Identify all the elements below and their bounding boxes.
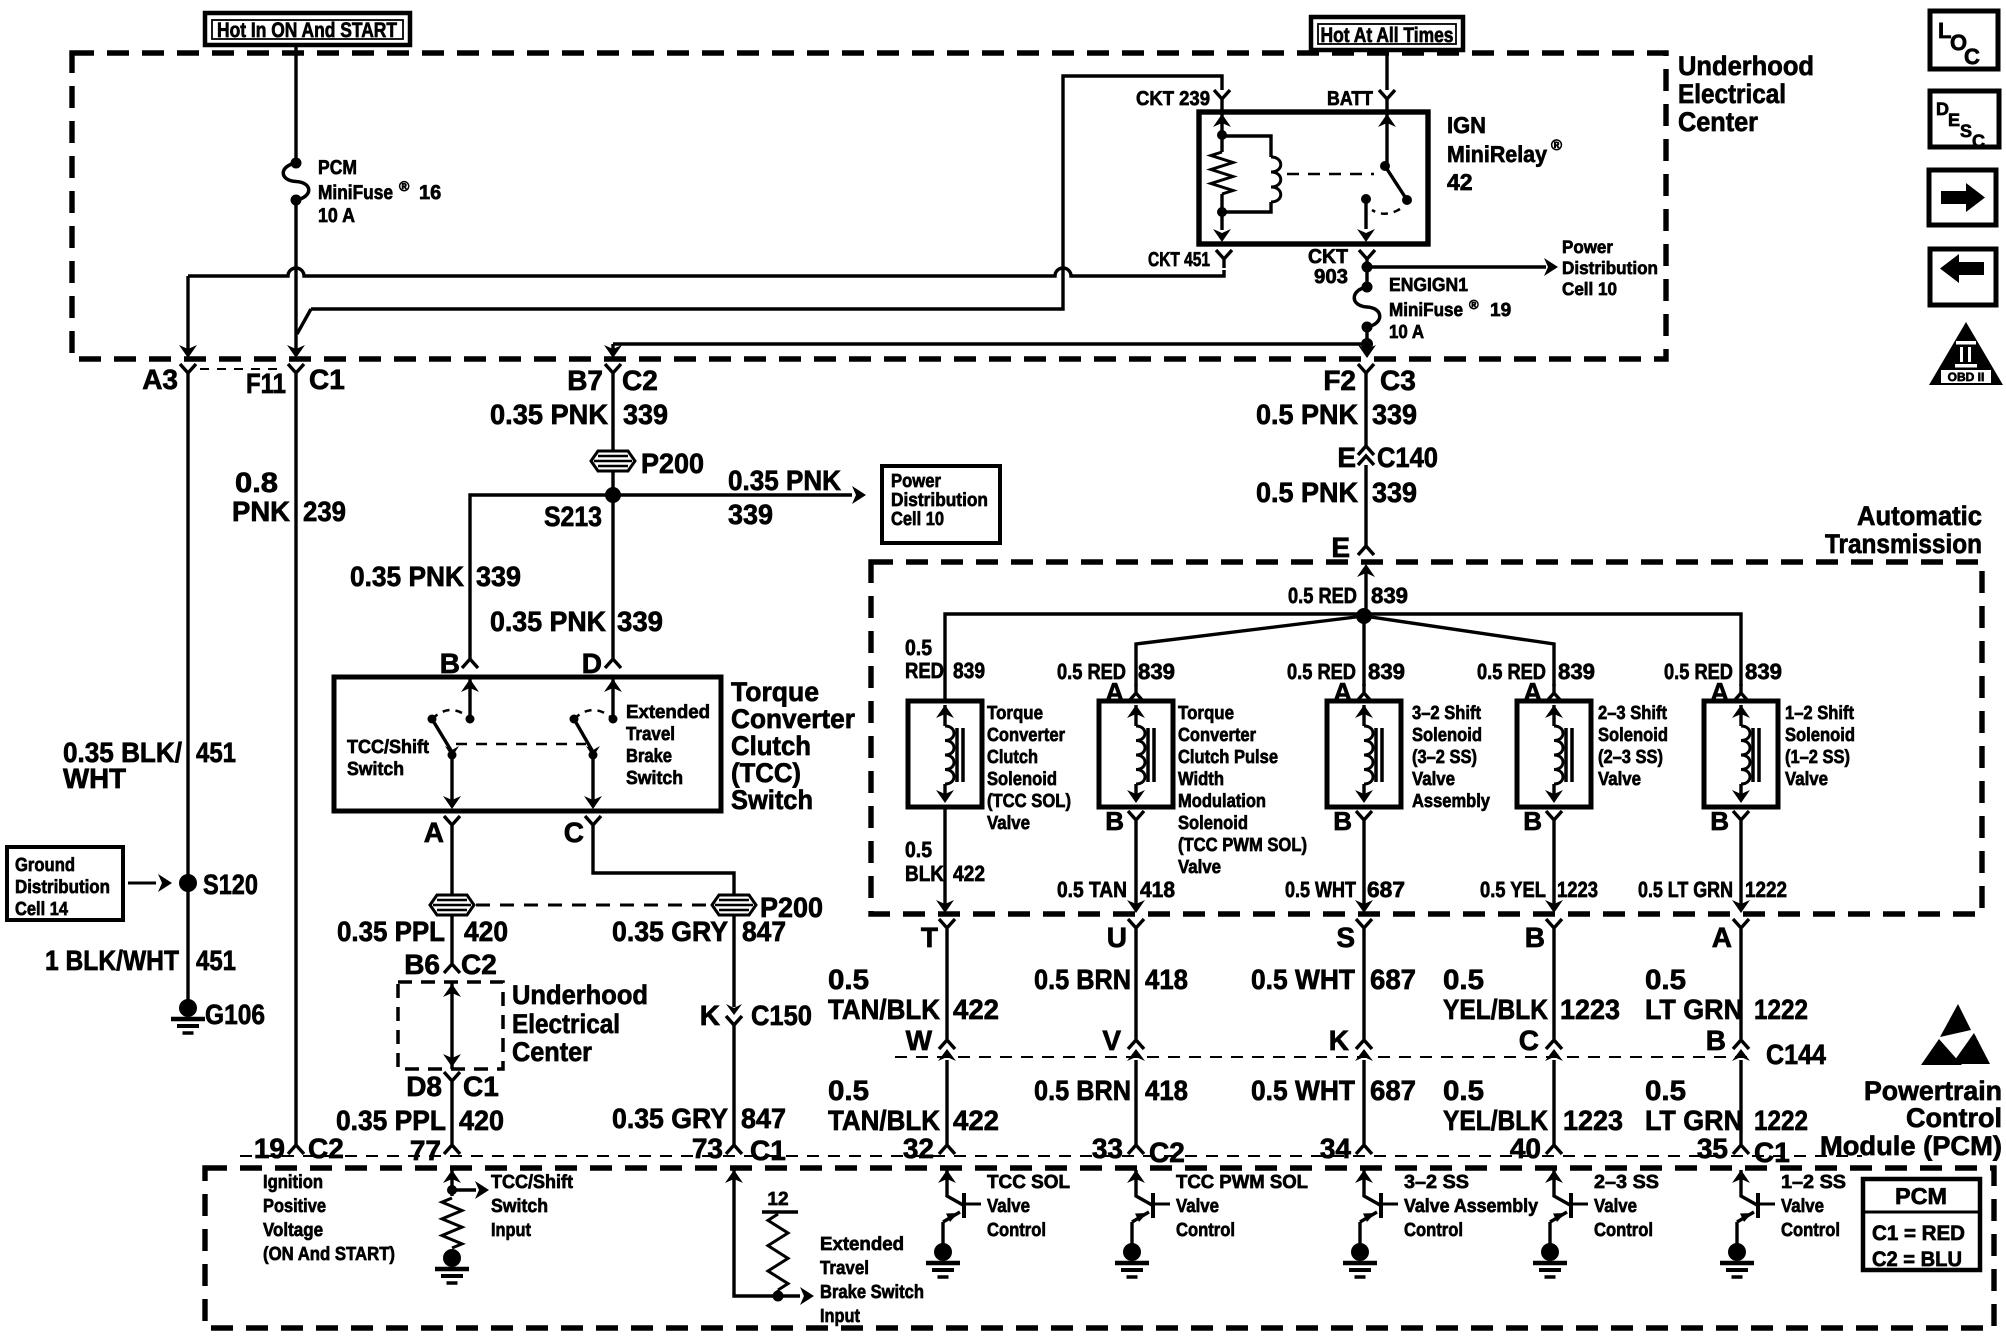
connector pin B of solenoid at x=1741 — [1733, 811, 1749, 829]
svg-text:Valve: Valve — [1178, 857, 1221, 878]
svg-text:Module (PCM): Module (PCM) — [1820, 1131, 2002, 1161]
underhood electrical center pass-through (dashed box) — [398, 982, 503, 1069]
solenoid coil box at x=1364 — [1327, 701, 1401, 807]
svg-text:Converter: Converter — [731, 704, 855, 734]
TCC/shift switch input circuit in PCM — [443, 1170, 461, 1183]
solenoid coil box at x=945 — [908, 701, 982, 807]
svg-text:Switch: Switch — [731, 785, 813, 815]
connector F2 C3 — [1358, 364, 1374, 382]
connector pin 40 of PCM — [1546, 1136, 1562, 1154]
splice S120 — [179, 874, 197, 892]
wire Hot In ON And START to fuse 16 — [294, 45, 297, 163]
svg-text:Transmission: Transmission — [1825, 529, 1982, 559]
PCM connector color legend box — [1863, 1179, 1980, 1270]
svg-text:687: 687 — [1367, 877, 1405, 902]
svg-text:Extended: Extended — [626, 702, 710, 723]
svg-text:0.5: 0.5 — [1645, 964, 1686, 995]
svg-text:10 A: 10 A — [318, 205, 355, 227]
svg-text:B: B — [1333, 806, 1352, 836]
connector pin W at C144 — [939, 1040, 955, 1049]
svg-text:Brake Switch: Brake Switch — [820, 1282, 924, 1303]
svg-text:Hot At All Times: Hot At All Times — [1321, 24, 1454, 47]
svg-text:Electrical: Electrical — [512, 1009, 620, 1039]
connector B7 C2 — [605, 364, 621, 382]
automatic transmission enclosure (dashed) — [871, 562, 1982, 914]
thin dashed connector plane A3-F11 — [200, 368, 284, 370]
svg-text:2–3 Shift: 2–3 Shift — [1598, 703, 1668, 724]
splice S213 — [605, 487, 621, 503]
svg-text:ENGIGN1: ENGIGN1 — [1389, 275, 1468, 296]
connector pin C at C144 — [1546, 1040, 1562, 1049]
svg-text:1–2 Shift: 1–2 Shift — [1785, 703, 1855, 724]
svg-text:Switch: Switch — [626, 768, 683, 789]
svg-text:Torque: Torque — [987, 703, 1043, 724]
svg-text:Valve: Valve — [1412, 769, 1455, 790]
dashed bulkhead line between P200 grommets — [476, 904, 710, 907]
svg-text:Valve: Valve — [1598, 769, 1641, 790]
wire S213 left branch to TCC switch pin B (0.35 PNK 339) — [470, 495, 613, 650]
svg-text:0.5: 0.5 — [1645, 1075, 1686, 1106]
connector pin B at C144 — [1733, 1040, 1749, 1049]
svg-text:839: 839 — [1138, 659, 1175, 684]
svg-text:35: 35 — [1697, 1133, 1728, 1164]
svg-text:418: 418 — [1145, 964, 1188, 995]
connector pin 77 of PCM — [444, 1136, 460, 1154]
svg-text:TCC/Shift: TCC/Shift — [347, 737, 430, 758]
svg-text:B: B — [1525, 922, 1545, 953]
svg-text:451: 451 — [196, 945, 236, 976]
svg-text:Ground: Ground — [15, 855, 75, 876]
wire F11 to PCM pin 19 (0.8 PNK 239) — [294, 382, 297, 1136]
relay switch — [1378, 114, 1396, 127]
svg-text:2–3 SS: 2–3 SS — [1594, 1172, 1659, 1193]
svg-text:S120: S120 — [203, 869, 258, 900]
svg-text:Input: Input — [491, 1220, 532, 1241]
svg-text:F2: F2 — [1323, 365, 1356, 396]
relay coil — [1222, 136, 1271, 157]
svg-text:Assembly: Assembly — [1412, 791, 1490, 812]
svg-text:73: 73 — [692, 1133, 723, 1164]
driver transistor for pin 40 — [1545, 1170, 1563, 1183]
svg-text:C2: C2 — [622, 365, 658, 396]
svg-text:B: B — [1710, 806, 1729, 836]
svg-text:MiniFuse: MiniFuse — [1389, 300, 1463, 321]
connector pin 33 of PCM — [1128, 1136, 1144, 1154]
svg-text:Control: Control — [1781, 1220, 1840, 1241]
wire C140 to transmission case connector E (0.5 PNK 339) — [1364, 465, 1367, 546]
svg-text:Valve: Valve — [1785, 769, 1828, 790]
svg-text:F11: F11 — [246, 368, 286, 399]
driver transistor for pin 32 — [938, 1170, 956, 1183]
svg-text:(TCC SOL): (TCC SOL) — [987, 791, 1071, 812]
svg-text:0.35 PPL: 0.35 PPL — [337, 916, 445, 947]
svg-text:C: C — [1964, 44, 1980, 69]
ground for driver 33 — [1123, 1243, 1141, 1261]
svg-text:®: ® — [399, 178, 410, 194]
svg-text:Valve Assembly: Valve Assembly — [1404, 1196, 1538, 1217]
svg-text:0.35 PNK: 0.35 PNK — [490, 399, 608, 430]
ground G106 — [179, 999, 197, 1017]
TCC switch output wires to A and C — [450, 755, 453, 807]
connector D8 C1 underhood electrical center — [444, 1072, 460, 1090]
svg-text:0.35 PPL: 0.35 PPL — [336, 1105, 446, 1136]
connector pin A of solenoid at x=1554 — [1546, 684, 1562, 702]
svg-text:Cell 10: Cell 10 — [1562, 279, 1617, 299]
svg-text:Valve: Valve — [1781, 1196, 1824, 1217]
svg-text:YEL/BLK: YEL/BLK — [1443, 1105, 1548, 1136]
svg-text:®: ® — [1469, 297, 1479, 312]
svg-text:Cell 10: Cell 10 — [891, 509, 944, 530]
svg-text:422: 422 — [953, 861, 985, 886]
svg-text:Solenoid: Solenoid — [987, 769, 1057, 790]
wire fuse16 branch to relay coil CKT 239 (net 239) — [311, 76, 1222, 309]
pass-through grommet P200 (TCC/shift signal) — [430, 895, 474, 915]
svg-text:A3: A3 — [142, 364, 178, 395]
svg-text:Cell 14: Cell 14 — [15, 899, 68, 920]
svg-text:B6: B6 — [404, 949, 440, 980]
connector pin A of TCC switch — [444, 816, 460, 834]
svg-text:LT GRN: LT GRN — [1645, 1105, 1743, 1136]
svg-text:0.5: 0.5 — [1443, 1075, 1484, 1106]
svg-text:420: 420 — [464, 916, 508, 947]
connector A3 of PCM harness — [180, 364, 196, 382]
svg-text:Input: Input — [820, 1306, 861, 1327]
svg-text:Voltage: Voltage — [263, 1220, 323, 1241]
svg-text:E: E — [1331, 532, 1350, 563]
svg-text:Valve: Valve — [1176, 1196, 1219, 1217]
svg-text:Automatic: Automatic — [1857, 501, 1982, 531]
power feed box Hot At All Times — [1311, 17, 1463, 50]
svg-text:339: 339 — [617, 606, 663, 637]
svg-text:C1: C1 — [1754, 1137, 1790, 1168]
svg-text:1223: 1223 — [1557, 877, 1598, 902]
svg-text:YEL/BLK: YEL/BLK — [1443, 994, 1548, 1025]
connector pin B of solenoid at x=1136 — [1128, 811, 1144, 829]
connector CKT 903 below relay — [1359, 250, 1375, 268]
svg-text:C1: C1 — [309, 364, 345, 395]
svg-text:B7: B7 — [567, 365, 603, 396]
svg-text:C2 = BLU: C2 = BLU — [1872, 1248, 1962, 1271]
svg-text:0.35 GRY: 0.35 GRY — [612, 1103, 728, 1134]
svg-text:C3: C3 — [1380, 365, 1416, 396]
connector pin B at transmission harness — [1546, 919, 1562, 937]
TCC switch assembly box — [334, 677, 721, 811]
svg-text:0.35 PNK: 0.35 PNK — [728, 465, 841, 496]
svg-text:3–2 SS: 3–2 SS — [1404, 1172, 1469, 1193]
svg-text:MiniFuse: MiniFuse — [318, 182, 393, 204]
relay coil-side pin arrows and wire — [1213, 114, 1231, 127]
svg-text:1 BLK/WHT: 1 BLK/WHT — [45, 945, 179, 976]
svg-text:A: A — [424, 817, 444, 848]
svg-text:(TCC): (TCC) — [731, 758, 801, 788]
svg-text:K: K — [700, 1000, 720, 1031]
wire A to B6 — [450, 915, 453, 955]
svg-text:CKT 239: CKT 239 — [1136, 88, 1210, 110]
connector pin A of solenoid at x=1364 — [1356, 684, 1372, 702]
wire A to P200 grommet — [450, 834, 453, 895]
svg-text:Travel: Travel — [820, 1258, 869, 1279]
svg-text:339: 339 — [1372, 399, 1417, 430]
svg-text:Solenoid: Solenoid — [1412, 725, 1482, 746]
svg-text:Torque: Torque — [1178, 703, 1234, 724]
svg-text:V: V — [1102, 1025, 1121, 1056]
svg-text:BATT: BATT — [1327, 88, 1373, 110]
svg-text:Brake: Brake — [626, 746, 672, 767]
splice of red feed in transmission — [1356, 608, 1372, 624]
svg-text:339: 339 — [728, 499, 773, 530]
svg-text:OBD II: OBD II — [1948, 370, 1985, 384]
svg-text:0.5 TAN: 0.5 TAN — [1057, 877, 1127, 902]
fuse ENGIGN1 MiniFuse 19 10A — [1362, 282, 1373, 293]
extended travel brake switch input circuit in PCM — [725, 1170, 743, 1183]
fuse PCM MiniFuse 16 10A — [291, 158, 302, 169]
svg-text:(TCC PWM SOL): (TCC PWM SOL) — [1178, 835, 1307, 856]
svg-text:Valve: Valve — [987, 1196, 1030, 1217]
power feed box Hot In ON And START — [205, 13, 410, 45]
svg-text:C144: C144 — [1766, 1039, 1826, 1070]
svg-text:C2: C2 — [461, 949, 497, 980]
svg-text:Positive: Positive — [263, 1196, 326, 1217]
svg-text:(1–2 SS): (1–2 SS) — [1785, 747, 1850, 768]
svg-text:D: D — [582, 648, 602, 679]
svg-text:0.8: 0.8 — [235, 467, 278, 498]
svg-text:IGN: IGN — [1447, 112, 1486, 138]
svg-text:1–2 SS: 1–2 SS — [1781, 1172, 1846, 1193]
svg-text:PCM: PCM — [318, 157, 357, 179]
wire red feed to 1-2 shift solenoid — [1364, 614, 1741, 686]
connector BATT at relay — [1385, 50, 1388, 90]
wire branch diagonal to CKT239 feed — [297, 309, 311, 334]
svg-text:Clutch: Clutch — [731, 731, 811, 761]
svg-text:(2–3 SS): (2–3 SS) — [1598, 747, 1663, 768]
svg-text:C: C — [564, 817, 584, 848]
svg-text:1223: 1223 — [1560, 994, 1620, 1025]
svg-text:T: T — [921, 922, 938, 953]
svg-text:TCC PWM SOL: TCC PWM SOL — [1176, 1172, 1308, 1193]
svg-text:RED: RED — [905, 658, 944, 683]
svg-text:Switch: Switch — [347, 759, 404, 780]
icon DESC — [1930, 91, 1999, 147]
connector pin K at C144 — [1356, 1040, 1372, 1049]
svg-text:Converter: Converter — [1178, 725, 1257, 746]
svg-text:0.5 BRN: 0.5 BRN — [1034, 964, 1131, 995]
svg-text:Width: Width — [1178, 769, 1224, 790]
connector pin A at transmission harness — [1733, 919, 1749, 937]
svg-text:CKT 451: CKT 451 — [1148, 249, 1210, 271]
svg-text:0.35 GRY: 0.35 GRY — [612, 916, 728, 947]
svg-text:0.5: 0.5 — [1443, 964, 1484, 995]
svg-text:1223: 1223 — [1563, 1105, 1623, 1136]
ground for driver 35 — [1728, 1243, 1746, 1261]
underhood electrical center enclosure (dashed) — [72, 53, 1666, 359]
connector CKT 451 below relay — [1216, 250, 1232, 268]
svg-text:0.35 PNK: 0.35 PNK — [490, 606, 606, 637]
svg-text:Control: Control — [1906, 1103, 2002, 1133]
svg-text:422: 422 — [953, 1105, 999, 1136]
relay coil suppression resistor — [1211, 152, 1233, 194]
icon forward arrow — [1929, 170, 1996, 225]
svg-text:Control: Control — [1404, 1220, 1463, 1241]
connector B6 C2 underhood electrical center — [444, 955, 460, 973]
svg-text:LT GRN: LT GRN — [1645, 994, 1743, 1025]
wire red feed down to 3-2 shift solenoid — [1362, 616, 1365, 686]
svg-text:S: S — [1336, 922, 1355, 953]
svg-text:0.5 LT GRN: 0.5 LT GRN — [1638, 877, 1733, 902]
svg-text:Control: Control — [1594, 1220, 1653, 1241]
svg-text:Powertrain: Powertrain — [1864, 1076, 2002, 1106]
svg-text:34: 34 — [1320, 1133, 1352, 1164]
driver transistor for pin 34 — [1355, 1170, 1373, 1183]
svg-text:0.5 BRN: 0.5 BRN — [1034, 1075, 1131, 1106]
icon back arrow — [1930, 249, 1996, 305]
svg-text:847: 847 — [742, 916, 786, 947]
wire fuse 16 down to F11 with branch — [294, 200, 297, 350]
svg-text:0.5 PNK: 0.5 PNK — [1256, 399, 1358, 430]
svg-text:0.35 PNK: 0.35 PNK — [350, 561, 464, 592]
svg-text:U: U — [1107, 922, 1127, 953]
svg-text:16: 16 — [419, 182, 441, 204]
icon OBD II triangle — [1929, 322, 2003, 385]
svg-text:Ignition: Ignition — [263, 1172, 323, 1193]
svg-text:W: W — [906, 1025, 933, 1056]
svg-text:Torque: Torque — [731, 677, 819, 707]
svg-text:C150: C150 — [751, 1000, 812, 1031]
svg-text:B: B — [1523, 806, 1542, 836]
svg-text:339: 339 — [1372, 477, 1417, 508]
wire B7 feed from fuse 19 (net 339) — [1365, 327, 1368, 350]
svg-text:Distribution: Distribution — [15, 877, 110, 898]
svg-text:Electrical: Electrical — [1678, 79, 1786, 109]
connector pin 73 C1 of PCM — [726, 1136, 742, 1154]
icon LOC — [1930, 11, 1998, 69]
svg-text:Distribution: Distribution — [1562, 258, 1658, 278]
svg-text:S: S — [1960, 121, 1972, 141]
svg-text:Distribution: Distribution — [891, 490, 988, 511]
wire S213 branch to Power Distribution Cell 10 — [613, 493, 852, 496]
svg-text:687: 687 — [1370, 964, 1416, 995]
svg-text:19: 19 — [1490, 300, 1511, 321]
connector pin A of solenoid at x=1741 — [1733, 684, 1749, 702]
thin dashed connector plane C144 — [895, 1056, 1748, 1058]
svg-text:0.5: 0.5 — [828, 964, 869, 995]
svg-text:0.5 WHT: 0.5 WHT — [1285, 877, 1356, 902]
svg-text:Hot In ON And START: Hot In ON And START — [217, 19, 397, 42]
wire C150 segment to PCM pin 73 — [732, 915, 735, 1007]
arrow to S120 from ground distribution — [128, 882, 156, 885]
svg-text:Control: Control — [987, 1220, 1046, 1241]
ground for driver 40 — [1541, 1243, 1559, 1261]
ground for driver 34 — [1351, 1243, 1369, 1261]
svg-text:Solenoid: Solenoid — [1785, 725, 1855, 746]
svg-text:Power: Power — [891, 471, 942, 492]
connector pin 34 of PCM — [1356, 1136, 1372, 1154]
pass-through grommet P200 (brake signal) — [712, 895, 756, 915]
svg-text:Clutch Pulse: Clutch Pulse — [1178, 747, 1278, 768]
svg-text:E: E — [1337, 442, 1356, 473]
connector pin 32 of PCM — [939, 1136, 955, 1154]
svg-text:CKT: CKT — [1308, 246, 1348, 268]
svg-text:0.5 WHT: 0.5 WHT — [1251, 964, 1355, 995]
connector pin S at transmission harness — [1356, 919, 1372, 937]
svg-text:TAN/BLK: TAN/BLK — [828, 994, 940, 1025]
connector pin T at transmission harness — [939, 919, 955, 937]
wire D8 to PCM pin 77 — [450, 1090, 453, 1136]
svg-text:33: 33 — [1092, 1133, 1123, 1164]
driver transistor for pin 33 — [1127, 1170, 1145, 1183]
svg-text:422: 422 — [953, 994, 999, 1025]
driver transistor for pin 35 — [1732, 1170, 1750, 1183]
svg-text:Valve: Valve — [1594, 1196, 1637, 1217]
svg-text:TCC/Shift: TCC/Shift — [491, 1172, 574, 1193]
svg-text:0.5 WHT: 0.5 WHT — [1251, 1075, 1355, 1106]
svg-text:0.5: 0.5 — [905, 635, 932, 660]
svg-text:1222: 1222 — [1754, 994, 1808, 1025]
svg-text:339: 339 — [623, 399, 668, 430]
connector pin V at C144 — [1128, 1040, 1144, 1049]
wire S213 down to TCC switch pin D (0.35 PNK 339) — [611, 495, 614, 650]
relay IGN MiniRelay 42 — [1199, 112, 1428, 244]
thin dashed connector plane at PCM pins — [240, 1155, 1862, 1157]
svg-text:WHT: WHT — [63, 763, 126, 794]
svg-text:10 A: 10 A — [1389, 322, 1424, 343]
svg-text:0.5 RED: 0.5 RED — [1288, 583, 1357, 608]
svg-text:Converter: Converter — [987, 725, 1066, 746]
TCC/Shift switch contacts — [461, 679, 479, 692]
svg-text:839: 839 — [953, 658, 985, 683]
svg-text:®: ® — [1551, 137, 1562, 154]
svg-text:Power: Power — [1562, 237, 1613, 257]
pass-through grommet P200 (ignition feed) — [591, 451, 635, 471]
svg-text:MiniRelay: MiniRelay — [1447, 141, 1547, 167]
svg-text:3–2 Shift: 3–2 Shift — [1412, 703, 1482, 724]
power distribution cell 10 reference box — [882, 466, 1000, 543]
svg-text:687: 687 — [1370, 1075, 1416, 1106]
svg-text:TCC SOL: TCC SOL — [987, 1172, 1070, 1193]
svg-text:847: 847 — [741, 1103, 786, 1134]
svg-text:Center: Center — [1678, 107, 1758, 137]
wire CKT451 to PCM A3 (net 451) with hops — [188, 268, 1224, 276]
svg-text:418: 418 — [1140, 877, 1175, 902]
svg-text:(ON And START): (ON And START) — [263, 1244, 395, 1265]
svg-text:1222: 1222 — [1745, 877, 1787, 902]
svg-text:0.5 PNK: 0.5 PNK — [1256, 477, 1358, 508]
ESD sensitive device symbol — [1940, 1004, 1971, 1037]
svg-text:C140: C140 — [1377, 442, 1438, 473]
wire C jog to P200 grommet — [593, 834, 734, 895]
svg-text:77: 77 — [410, 1135, 441, 1166]
svg-text:42: 42 — [1447, 169, 1473, 195]
wire A3 to S120 (0.35 BLK/WHT 451) — [186, 382, 189, 1002]
svg-text:P200: P200 — [641, 448, 704, 479]
connector pin U at transmission harness — [1128, 919, 1144, 937]
svg-text:G106: G106 — [205, 999, 265, 1030]
relay dashed actuation link — [1287, 173, 1374, 176]
svg-text:12: 12 — [767, 1189, 788, 1210]
svg-text:418: 418 — [1145, 1075, 1188, 1106]
wire red feed to TCC solenoid — [945, 614, 1364, 701]
connector CKT 239 at relay — [1214, 90, 1230, 112]
svg-text:PCM: PCM — [1895, 1183, 1947, 1209]
connector pin 35 of PCM — [1733, 1136, 1749, 1154]
connector pin B of TCC switch — [462, 650, 478, 668]
ground distribution reference box — [7, 847, 123, 920]
connector F11 C1 — [288, 364, 304, 382]
svg-text:Underhood: Underhood — [1678, 51, 1814, 81]
wire P200 to splice S213 — [611, 471, 614, 495]
svg-text:C2: C2 — [308, 1133, 344, 1164]
svg-text:839: 839 — [1745, 659, 1782, 684]
svg-text:C1: C1 — [463, 1071, 499, 1102]
